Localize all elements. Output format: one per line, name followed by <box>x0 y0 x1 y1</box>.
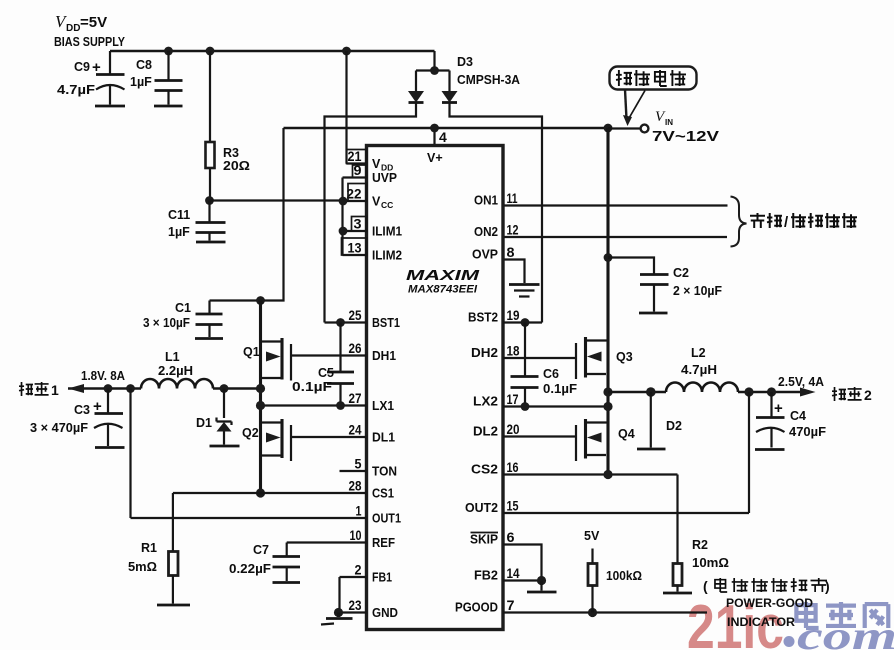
svg-text:28: 28 <box>349 478 362 494</box>
wire ON2 <box>503 236 727 238</box>
wire V+ rail <box>284 127 609 130</box>
svg-text:FB2: FB2 <box>474 569 498 583</box>
svg-text:C8: C8 <box>136 58 152 72</box>
junction CS2/Q4 source <box>603 470 612 479</box>
svg-text:MAXIM: MAXIM <box>406 268 480 284</box>
svg-text:D1: D1 <box>196 416 212 430</box>
wire SKIP stub <box>503 545 542 581</box>
pin 6 label SKIP <box>470 533 498 547</box>
svg-text:FB1: FB1 <box>372 571 392 585</box>
svg-text:7V~12V: 7V~12V <box>652 129 719 145</box>
svg-text:V+: V+ <box>427 151 443 165</box>
svg-text:1: 1 <box>356 503 362 519</box>
wire ILIM2 stub <box>343 254 367 256</box>
diode D3 CMPSH-3A <box>325 51 543 323</box>
capacitor C6 <box>511 323 578 407</box>
svg-text:Q2: Q2 <box>242 426 259 440</box>
svg-text:100kΩ: 100kΩ <box>606 569 642 583</box>
svg-text:23: 23 <box>349 597 362 613</box>
watermark dianziwang <box>796 602 888 628</box>
svg-text:R2: R2 <box>692 538 708 552</box>
wire VIN riser <box>606 128 609 475</box>
svg-text:LX2: LX2 <box>473 395 498 409</box>
svg-text:4: 4 <box>439 129 447 145</box>
svg-text:Q1: Q1 <box>243 345 260 359</box>
wire OUT2 <box>503 512 749 514</box>
svg-text:UVP: UVP <box>372 171 397 185</box>
capacitor C5 <box>292 323 354 406</box>
svg-text:26: 26 <box>349 340 362 356</box>
svg-text:15: 15 <box>507 498 519 514</box>
svg-text:3 × 470µF: 3 × 470µF <box>30 421 88 435</box>
junction C4 tap <box>767 387 776 396</box>
junction R3/C11/VCC wire <box>205 196 214 205</box>
junction PGOOD/pullup <box>588 608 597 617</box>
svg-text:5mΩ: 5mΩ <box>128 560 157 574</box>
node VDD bias supply text <box>54 12 125 49</box>
svg-text:C5: C5 <box>318 366 334 380</box>
watermark 21ic <box>687 593 784 650</box>
op-amp U1 MAX8743EEI IC body <box>367 146 504 630</box>
svg-text:11: 11 <box>507 190 518 206</box>
svg-text:R3: R3 <box>223 146 239 160</box>
wire OUT2 riser <box>748 392 750 513</box>
wire OVP stub <box>503 260 525 284</box>
svg-text:DL1: DL1 <box>372 431 395 445</box>
svg-text:C4: C4 <box>790 409 806 423</box>
svg-text:ILIM1: ILIM1 <box>372 225 402 239</box>
svg-text:25: 25 <box>349 307 362 323</box>
svg-text:Q4: Q4 <box>618 427 635 441</box>
svg-text:24: 24 <box>349 422 362 438</box>
svg-text:C1: C1 <box>175 301 191 315</box>
junction BST2/C6 <box>521 318 530 327</box>
svg-text:1µF: 1µF <box>168 225 190 239</box>
svg-text:1µF: 1µF <box>130 75 152 89</box>
svg-text:L2: L2 <box>691 346 706 360</box>
svg-text:20: 20 <box>507 421 520 437</box>
junction OUT1 riser <box>126 384 135 393</box>
junction CS1/Q2 source <box>256 488 265 497</box>
capacitor C2 <box>608 258 722 314</box>
label on/standby control <box>750 213 857 231</box>
arrow output2 <box>800 388 816 397</box>
wire Q1 drain riser <box>259 301 262 494</box>
svg-text:+: + <box>93 398 102 415</box>
transistor Q3 <box>503 337 633 379</box>
capacitor C9 <box>57 51 125 106</box>
svg-text:7: 7 <box>507 597 515 613</box>
wire LX1 <box>261 404 367 406</box>
ground FB2 <box>527 581 557 593</box>
svg-text:V: V <box>372 195 381 209</box>
junction V+ pin4 <box>430 124 439 133</box>
capacitor C11 <box>168 201 226 243</box>
junction D3 common <box>430 66 439 75</box>
pin box 13 <box>342 238 367 255</box>
svg-text:PGOOD: PGOOD <box>455 601 498 615</box>
svg-text:0.1µF: 0.1µF <box>292 380 332 394</box>
wire VDD stub <box>347 162 367 164</box>
watermark dot <box>784 636 795 647</box>
wire BST1 <box>325 321 367 323</box>
svg-text:CMPSH-3A: CMPSH-3A <box>457 73 520 87</box>
svg-text:POWER-GOOD: POWER-GOOD <box>726 596 813 610</box>
svg-text:DL2: DL2 <box>473 425 498 439</box>
svg-text:27: 27 <box>349 390 362 406</box>
svg-text:14: 14 <box>507 565 520 581</box>
svg-text:12: 12 <box>507 222 519 238</box>
svg-text:): ) <box>825 578 830 594</box>
svg-text:20Ω: 20Ω <box>223 159 250 173</box>
diode D1 <box>196 389 240 447</box>
junction LX2/QS2 <box>603 402 612 411</box>
wire OUT1 riser <box>129 389 131 519</box>
wire bias rail <box>110 50 435 53</box>
label output1 <box>19 382 59 398</box>
svg-text:2: 2 <box>864 387 872 403</box>
svg-text:16: 16 <box>507 459 519 475</box>
junction bias/R3 <box>206 47 215 56</box>
wire bracket UVP-VCC-ILIM1-ILIM2 <box>341 178 343 256</box>
svg-text:19: 19 <box>507 307 520 323</box>
wire output1 <box>68 387 261 390</box>
svg-text:C2: C2 <box>673 266 689 280</box>
svg-text:470µF: 470µF <box>789 425 826 439</box>
terminal VIN <box>608 109 719 145</box>
svg-text:OVP: OVP <box>472 248 498 262</box>
svg-text:10: 10 <box>350 527 362 543</box>
svg-text:3 × 10µF: 3 × 10µF <box>143 316 190 330</box>
pin 22 label VCC <box>372 195 393 211</box>
pin 21 label VDD <box>372 157 393 173</box>
svg-text:C7: C7 <box>253 543 269 557</box>
label power status indicator <box>703 578 830 594</box>
wire FB1 <box>340 577 367 613</box>
svg-text:5V: 5V <box>584 529 600 543</box>
junction out2 node <box>603 387 612 396</box>
brace on/standby <box>731 197 747 247</box>
svg-text:DH2: DH2 <box>471 346 498 360</box>
svg-text:8: 8 <box>507 244 515 260</box>
svg-text:D3: D3 <box>457 55 473 69</box>
junction bias/VDD riser <box>342 47 351 56</box>
junction D2 tap <box>646 387 656 397</box>
transistor Q4 <box>503 419 635 461</box>
junction LX2/C6 <box>521 402 530 411</box>
capacitor C3 <box>30 389 125 448</box>
svg-text:3: 3 <box>354 216 362 232</box>
junction VIN node <box>604 124 613 133</box>
wire ILIM1 stub <box>343 230 367 232</box>
node 5V pullup <box>584 529 642 613</box>
svg-text:2: 2 <box>355 562 362 578</box>
junction C1 wire / Q1 drain <box>256 296 265 305</box>
svg-text:BST1: BST1 <box>372 316 400 330</box>
wire LX2 <box>503 405 608 407</box>
junction C2 tap <box>604 253 613 262</box>
wire UVP stub <box>343 176 367 178</box>
svg-text:0.22µF: 0.22µF <box>229 562 271 576</box>
svg-text:ON1: ON1 <box>474 194 498 208</box>
wire TON stub <box>340 470 367 472</box>
pin box 9 <box>353 165 367 178</box>
pin box 22 <box>348 184 367 202</box>
resistor R2 <box>663 475 729 594</box>
svg-text:4.7µF: 4.7µF <box>57 83 95 97</box>
junction LX1/QS <box>256 401 265 410</box>
svg-text:CS2: CS2 <box>471 463 498 477</box>
svg-text:6: 6 <box>507 529 515 545</box>
wire BST2 <box>503 321 542 323</box>
svg-text:OUT2: OUT2 <box>465 501 498 515</box>
svg-text:SKIP: SKIP <box>470 533 498 547</box>
svg-text:+: + <box>92 59 101 76</box>
svg-text:10mΩ: 10mΩ <box>692 556 729 570</box>
pin box 21 <box>347 150 367 164</box>
ground GND pin <box>321 613 353 625</box>
wire VCC stub <box>343 200 367 202</box>
svg-text:2 × 10µF: 2 × 10µF <box>673 284 722 298</box>
svg-text:BST2: BST2 <box>468 311 498 325</box>
inductor L1 <box>141 350 213 389</box>
svg-text:2.2µH: 2.2µH <box>158 364 193 378</box>
wire PGOOD <box>503 611 707 613</box>
junction LX1/C5 <box>336 401 345 410</box>
transistor Q2 <box>242 419 367 461</box>
junction bias/C8 <box>164 47 173 56</box>
svg-text:1: 1 <box>51 382 59 398</box>
label output2 <box>832 387 872 403</box>
svg-text:CC: CC <box>381 200 393 210</box>
svg-text:C6: C6 <box>543 367 559 381</box>
svg-text:CS1: CS1 <box>372 487 394 501</box>
svg-text:INDICATOR: INDICATOR <box>727 615 795 629</box>
junction BST1/C5 <box>336 318 345 327</box>
svg-text:TON: TON <box>372 465 397 479</box>
wire ON1 <box>503 204 728 206</box>
wire OUT1 <box>131 517 367 519</box>
wire V+ left branch to C1 <box>210 128 284 301</box>
svg-text:Q3: Q3 <box>616 350 633 364</box>
arrow output1 <box>68 384 84 393</box>
wire VDD riser <box>345 51 347 164</box>
wire VCC feed <box>210 199 344 201</box>
junction OUT2 riser top <box>744 387 753 396</box>
callout input voltage box <box>610 67 697 127</box>
junction out1 node <box>256 384 265 393</box>
capacitor C1 <box>143 301 223 339</box>
svg-text:D2: D2 <box>666 419 682 433</box>
svg-text:18: 18 <box>507 343 520 359</box>
ground OVP <box>509 285 540 297</box>
svg-text:DH1: DH1 <box>372 349 396 363</box>
watermark com <box>797 613 894 650</box>
junction FB2/SKIP <box>537 576 546 585</box>
svg-text:2.5V, 4A: 2.5V, 4A <box>778 375 824 389</box>
resistor R1 <box>128 493 190 605</box>
resistor R3 <box>206 51 251 201</box>
svg-text:V: V <box>372 157 381 171</box>
svg-text:ON2: ON2 <box>474 225 498 239</box>
pin box 3 <box>352 217 367 232</box>
svg-text:(: ( <box>703 578 708 594</box>
svg-text:L1: L1 <box>165 350 180 364</box>
svg-text:R1: R1 <box>141 541 157 555</box>
svg-text:DD: DD <box>66 23 80 34</box>
logo MAXIM <box>406 268 480 296</box>
svg-text:C9: C9 <box>74 60 90 74</box>
wire GND stub <box>339 611 367 613</box>
wire CS2 <box>503 473 678 475</box>
svg-text:C3: C3 <box>74 403 90 417</box>
svg-text:17: 17 <box>507 391 519 407</box>
svg-text:C11: C11 <box>168 208 190 222</box>
capacitor C7 <box>229 543 300 583</box>
wire CS1 <box>173 492 367 494</box>
svg-text:4.7µH: 4.7µH <box>681 363 717 377</box>
svg-text:MAX8743EEI: MAX8743EEI <box>408 284 478 296</box>
transistor Q1 <box>243 338 367 381</box>
wire REF <box>287 541 367 543</box>
svg-text:ILIM2: ILIM2 <box>372 249 402 263</box>
svg-text:+: + <box>774 400 783 417</box>
junction GND/FB1 <box>334 608 343 617</box>
wire FB2 <box>503 579 542 581</box>
svg-text:OUT1: OUT1 <box>372 512 401 526</box>
svg-text:1.8V. 8A: 1.8V. 8A <box>81 369 125 383</box>
wire output2 <box>608 391 802 394</box>
junction VCC bracket <box>339 197 348 206</box>
capacitor C4 <box>755 392 826 450</box>
capacitor C8 <box>130 51 183 106</box>
svg-text:IN: IN <box>665 118 673 127</box>
junction C3 tap <box>104 384 113 393</box>
svg-text:BIAS SUPPLY: BIAS SUPPLY <box>54 34 125 49</box>
junction ILIM1 bracket <box>339 227 348 236</box>
svg-text:5: 5 <box>355 456 362 472</box>
svg-text:0.1µF: 0.1µF <box>543 382 577 396</box>
svg-text:GND: GND <box>372 606 398 620</box>
pin 4 stub <box>433 128 435 146</box>
svg-text:13: 13 <box>348 240 362 256</box>
junction D1 tap <box>220 384 229 393</box>
svg-text:REF: REF <box>372 536 395 550</box>
diode D2 <box>637 392 682 449</box>
svg-text:=5V: =5V <box>80 14 107 31</box>
svg-text:LX1: LX1 <box>372 399 394 413</box>
inductor L2 <box>666 346 738 392</box>
